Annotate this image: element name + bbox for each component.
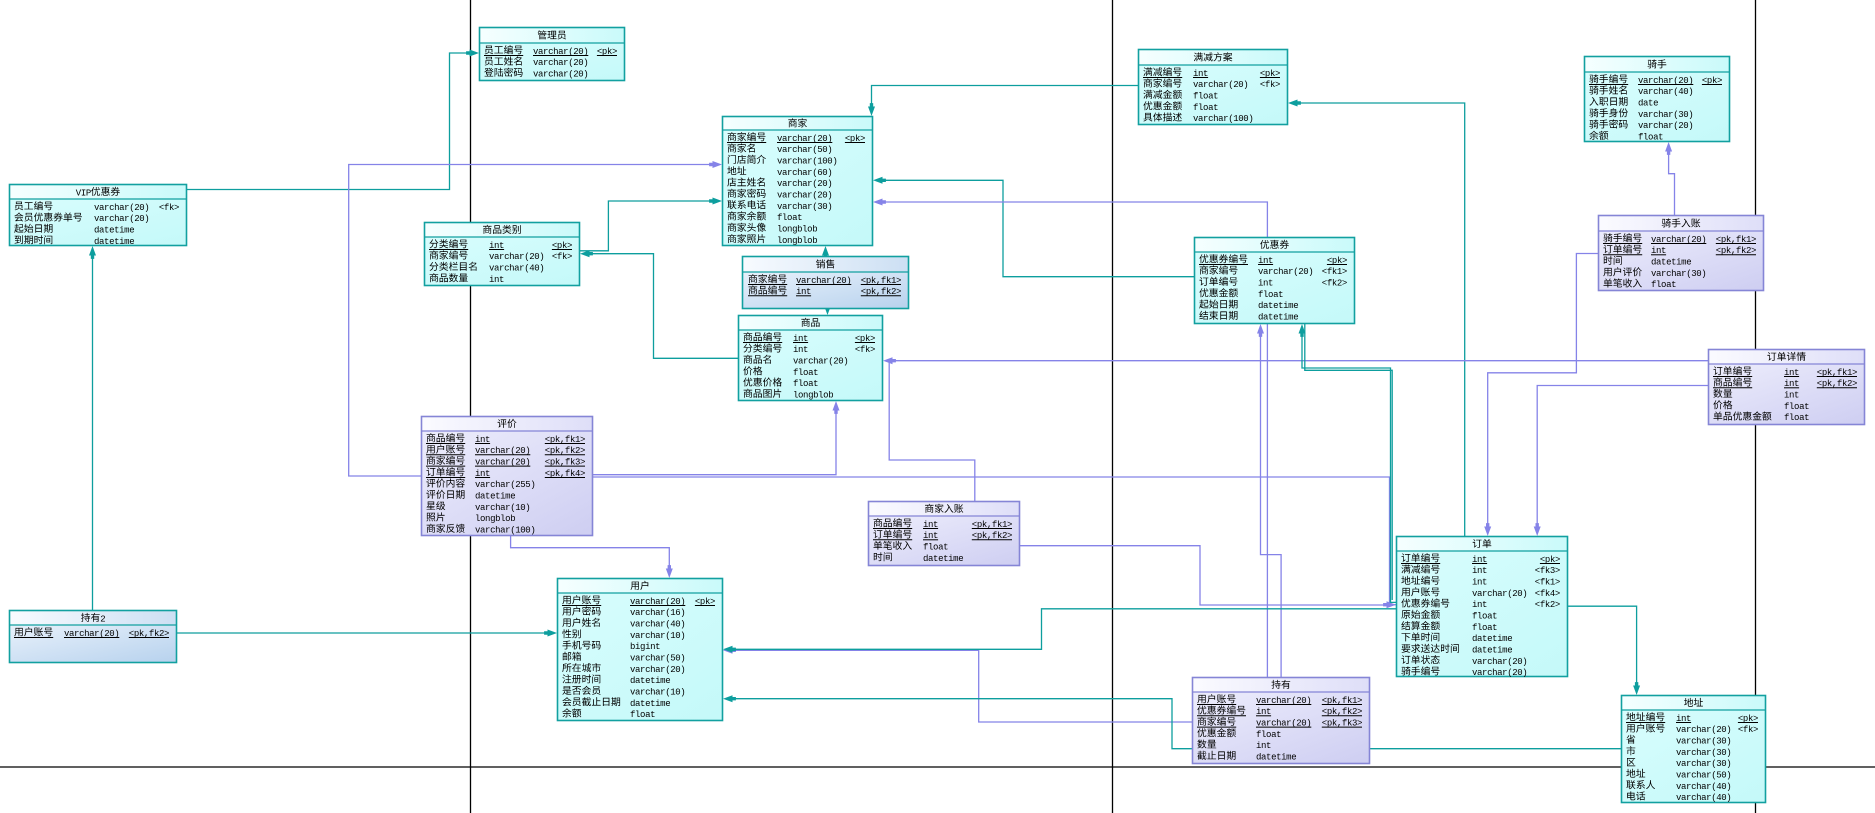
svg-text:varchar(30): varchar(30): [1676, 737, 1731, 747]
wire 评价 to 订单: [593, 477, 1396, 605]
table 满减方案: [0, 0, 1, 1]
table 骑手入账: [0, 0, 1, 1]
svg-text:datetime: datetime: [630, 699, 670, 709]
svg-text:<fk4>: <fk4>: [1535, 589, 1560, 599]
svg-text:<fk>: <fk>: [855, 345, 875, 355]
svg-text:varchar(20): varchar(20): [630, 665, 685, 675]
svg-text:varchar(10): varchar(10): [630, 631, 685, 641]
svg-text:varchar(20): varchar(20): [533, 58, 588, 68]
wire 商家入账 to 订单: [1020, 546, 1388, 605]
svg-text:<fk1>: <fk1>: [1322, 267, 1347, 277]
svg-text:varchar(30): varchar(30): [1638, 110, 1693, 120]
svg-text:varchar(50): varchar(50): [1676, 771, 1731, 781]
svg-text:varchar(255): varchar(255): [475, 480, 535, 490]
svg-text:varchar(10): varchar(10): [630, 688, 685, 698]
svg-text:datetime: datetime: [1258, 313, 1298, 323]
svg-text:varchar(20): varchar(20): [94, 203, 149, 213]
page-break horizontal line: [0, 766, 1875, 768]
svg-text:float: float: [1193, 103, 1218, 113]
svg-text:varchar(20): varchar(20): [1193, 80, 1248, 90]
svg-text:int: int: [1256, 741, 1271, 751]
svg-text:varchar(20): varchar(20): [777, 191, 832, 201]
svg-text:int: int: [1472, 566, 1487, 576]
svg-text:varchar(40): varchar(40): [1676, 782, 1731, 792]
wire 地址 to 用户: [731, 699, 1621, 749]
wire 订单详情 to 商品: [891, 360, 1708, 362]
svg-text:<fk2>: <fk2>: [1535, 600, 1560, 610]
svg-text:datetime: datetime: [94, 226, 134, 236]
svg-text:varchar(20): varchar(20): [94, 214, 149, 224]
page-break vertical line 2: [1112, 0, 1114, 813]
svg-text:float: float: [1651, 280, 1676, 290]
svg-text:varchar(20): varchar(20): [793, 357, 848, 367]
svg-text:varchar(40): varchar(40): [1638, 87, 1693, 97]
table 地址: [0, 0, 1, 1]
svg-text:float: float: [777, 213, 802, 223]
page-break vertical line 1: [470, 0, 472, 813]
wire 持有2 to 用户: [177, 632, 549, 634]
wire 销售 to 商品: [827, 307, 829, 309]
table 用户: [0, 0, 1, 1]
svg-text:datetime: datetime: [1256, 753, 1296, 763]
svg-text:float: float: [1193, 92, 1218, 102]
wire 评价 to 商家: [349, 165, 714, 477]
table 商品: [0, 0, 1, 1]
svg-text:varchar(20): varchar(20): [1638, 121, 1693, 131]
svg-text:varchar(20): varchar(20): [1472, 589, 1527, 599]
svg-text:varchar(30): varchar(30): [777, 202, 832, 212]
svg-text:date: date: [1638, 99, 1658, 109]
wire 持有 to 优惠券: [1261, 332, 1282, 677]
svg-text:varchar(16): varchar(16): [630, 608, 685, 618]
wire 订单详情 to 订单: [1537, 386, 1708, 529]
svg-text:varchar(20): varchar(20): [1472, 668, 1527, 678]
svg-text:int: int: [1472, 578, 1487, 588]
svg-text:datetime: datetime: [1472, 646, 1512, 656]
svg-text:float: float: [630, 710, 655, 720]
svg-text:varchar(20): varchar(20): [1258, 267, 1313, 277]
svg-text:varchar(60): varchar(60): [777, 168, 832, 178]
svg-text:float: float: [1472, 623, 1497, 633]
wire 评价 to 商品: [593, 409, 836, 475]
svg-text:int: int: [793, 345, 808, 355]
svg-text:datetime: datetime: [475, 492, 515, 502]
svg-text:varchar(40): varchar(40): [489, 264, 544, 274]
svg-text:longblob: longblob: [777, 236, 817, 246]
svg-text:varchar(10): varchar(10): [475, 503, 530, 513]
svg-text:float: float: [1784, 413, 1809, 423]
svg-text:varchar(30): varchar(30): [1676, 748, 1731, 758]
svg-text:varchar(40): varchar(40): [1676, 793, 1731, 803]
table 持有2: [0, 0, 1, 1]
table 订单详情: [0, 0, 1, 1]
svg-text:float: float: [1784, 402, 1809, 412]
wire 商品类别 to 商家: [580, 201, 714, 251]
wire 订单 to 满减方案: [1296, 103, 1465, 536]
svg-text:<fk1>: <fk1>: [1535, 578, 1560, 588]
wire 评价 to 用户: [511, 536, 670, 570]
wire 骑手入账 to 骑手: [1669, 150, 1675, 215]
wire 优惠券 to 订单 (parallel stub): [1305, 324, 1392, 600]
svg-text:datetime: datetime: [1651, 258, 1691, 268]
svg-text:longblob: longblob: [475, 514, 515, 524]
svg-text:bigint: bigint: [630, 642, 660, 652]
svg-text:varchar(20): varchar(20): [533, 70, 588, 80]
wire 订单 to 优惠券: [1302, 332, 1396, 602]
svg-text:float: float: [793, 379, 818, 389]
svg-text:datetime: datetime: [1472, 634, 1512, 644]
wire 订单 to 地址: [1568, 606, 1637, 687]
svg-text:float: float: [1472, 612, 1497, 622]
table 持有: [0, 0, 1, 1]
table 骑手: [0, 0, 1, 1]
svg-text:float: float: [923, 543, 948, 553]
svg-text:<fk3>: <fk3>: [1535, 566, 1560, 576]
table VIP优惠券: [0, 0, 1, 1]
svg-text:varchar(20): varchar(20): [777, 179, 832, 189]
svg-text:varchar(40): varchar(40): [630, 620, 685, 630]
svg-text:varchar(20): varchar(20): [1472, 657, 1527, 667]
wire 销售 to 商家: [825, 254, 827, 256]
wire 订单 to 用户: [731, 609, 1396, 650]
wire 商品 to 商品类别: [588, 254, 738, 359]
wire 持有 to 用户: [731, 650, 1192, 722]
svg-text:longblob: longblob: [793, 391, 833, 401]
wire 优惠券 to 商家: [881, 180, 1194, 276]
svg-text:varchar(50): varchar(50): [777, 145, 832, 155]
svg-text:<fk>: <fk>: [552, 252, 572, 262]
svg-text:float: float: [1258, 290, 1283, 300]
svg-text:varchar(20): varchar(20): [489, 252, 544, 262]
svg-text:int: int: [1784, 391, 1799, 401]
svg-text:varchar(50): varchar(50): [630, 654, 685, 664]
svg-text:varchar(100): varchar(100): [1193, 114, 1253, 124]
table 商家: [0, 0, 1, 1]
svg-text:int: int: [1472, 600, 1487, 610]
table 商家入账: [0, 0, 1, 1]
wire 满减方案 to 商家: [872, 86, 1139, 109]
svg-text:float: float: [793, 368, 818, 378]
svg-text:float: float: [1638, 133, 1663, 143]
svg-text:datetime: datetime: [94, 237, 134, 247]
svg-text:<fk2>: <fk2>: [1322, 279, 1347, 289]
svg-text:varchar(30): varchar(30): [1676, 759, 1731, 769]
svg-text:float: float: [1256, 730, 1281, 740]
page-break vertical line 3: [1755, 0, 1757, 813]
svg-text:datetime: datetime: [923, 554, 963, 564]
svg-text:datetime: datetime: [630, 676, 670, 686]
svg-text:varchar(20): varchar(20): [1676, 725, 1731, 735]
svg-text:int: int: [1258, 279, 1273, 289]
table 管理员: [0, 0, 1, 1]
wire 持有2 to VIP优惠券: [92, 254, 94, 610]
svg-text:<fk>: <fk>: [159, 203, 179, 213]
wire 骑手入账 to 订单: [1488, 254, 1598, 529]
svg-text:varchar(30): varchar(30): [1651, 269, 1706, 279]
table 销售: [0, 0, 1, 1]
svg-text:datetime: datetime: [1258, 301, 1298, 311]
wire VIP优惠券 to 管理员: [187, 53, 471, 190]
svg-text:<fk>: <fk>: [1260, 80, 1280, 90]
svg-text:varchar(100): varchar(100): [777, 157, 837, 167]
table 评价: [0, 0, 1, 1]
svg-text:VIP: VIP: [76, 189, 91, 199]
table 订单: [0, 0, 1, 1]
svg-text:varchar(100): varchar(100): [475, 526, 535, 536]
wire 商家入账 to 商品: [889, 361, 975, 501]
svg-text:<fk>: <fk>: [1738, 725, 1758, 735]
table 商品类别: [0, 0, 1, 1]
table 优惠券: [0, 0, 1, 1]
svg-text:2: 2: [100, 615, 105, 625]
svg-text:longblob: longblob: [777, 225, 817, 235]
svg-text:int: int: [489, 275, 504, 285]
wire 持有 to 商家: [881, 202, 1267, 677]
